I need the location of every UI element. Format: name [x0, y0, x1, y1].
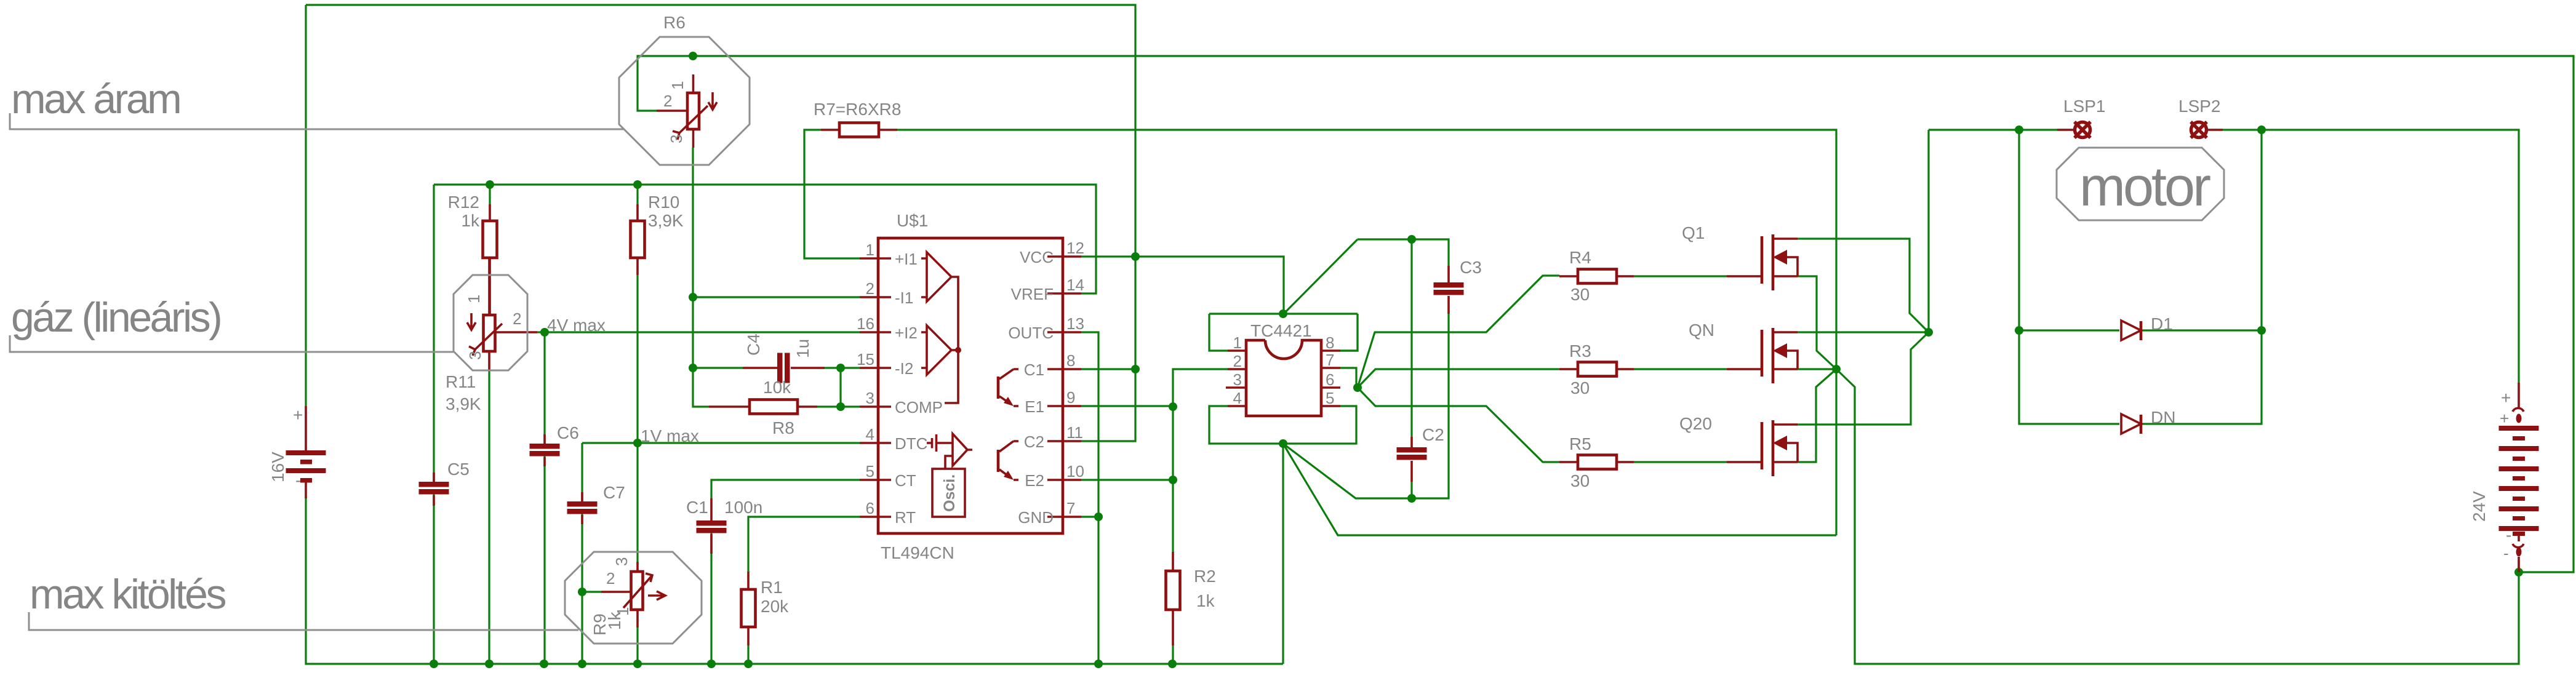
svg-text:10k: 10k [763, 378, 791, 397]
wire C3 rail [1358, 239, 1449, 498]
diode DN [2121, 414, 2141, 434]
wire row91 to right border [693, 56, 2574, 572]
wire R8 C4 right node to COMP [817, 368, 860, 407]
U1 oscillator box [945, 456, 953, 469]
node junction at 885,540 [540, 328, 549, 337]
svg-text:6: 6 [1326, 370, 1334, 389]
node junction at 3675,537 [2257, 326, 2266, 335]
svg-text:Q20: Q20 [1679, 414, 1712, 433]
node junction at 946,1079 [578, 660, 586, 668]
svg-text:30: 30 [1570, 378, 1590, 397]
svg-text:2: 2 [866, 279, 874, 298]
wire star to battery minus return [1836, 369, 2519, 664]
node junction at 1126,483 [689, 293, 697, 301]
wire R7 to TL494 pin1 [804, 130, 860, 258]
svg-text:R5: R5 [1569, 434, 1591, 453]
node junction at 1906,661 [1169, 402, 1177, 411]
wire pin6 node fan to R5 [1358, 388, 1559, 462]
wire D1 DN loop right [2142, 130, 2262, 424]
svg-text:GND: GND [1018, 508, 1054, 527]
capacitor C6 [543, 434, 546, 466]
svg-text:+: + [2501, 388, 2511, 407]
wire 1V max rail to DTC [582, 442, 860, 444]
wire top border net [306, 5, 1135, 257]
svg-text:D1: D1 [2151, 314, 2173, 333]
svg-text:LSP2: LSP2 [2178, 97, 2221, 116]
svg-text:4: 4 [866, 425, 874, 444]
svg-text:3: 3 [1233, 370, 1242, 389]
svg-text:C1: C1 [1024, 361, 1044, 379]
svg-text:C1: C1 [686, 498, 708, 517]
wire TC4421 top rail [1209, 239, 1358, 351]
node junction at 1036,1079 [633, 660, 642, 668]
svg-text:C6: C6 [557, 423, 579, 442]
svg-text:8: 8 [1326, 333, 1334, 352]
capacitor C7 [581, 492, 583, 524]
node junction at 2294,810 [1407, 494, 1416, 503]
node junction at 3281,211 [2015, 126, 2023, 134]
node junction at 1216,1079 [744, 660, 753, 668]
battery 24V [2499, 383, 2539, 572]
svg-text:3: 3 [466, 351, 484, 360]
wire VREF rail [434, 185, 1096, 293]
node junction at 1785,840 [1094, 512, 1103, 521]
svg-text:2: 2 [606, 569, 615, 588]
U1 amplifier triangle 2 [921, 325, 951, 375]
wire R11 pin3 to ground bus [488, 369, 490, 664]
svg-text:1: 1 [614, 607, 632, 616]
svg-text:3: 3 [612, 557, 631, 566]
svg-text:-I2: -I2 [895, 359, 913, 378]
svg-text:+I2: +I2 [895, 324, 918, 342]
wire R5 to Q20 gate [1634, 461, 1727, 463]
svg-text:10: 10 [1066, 462, 1084, 481]
svg-text:R12: R12 [448, 193, 479, 212]
pad LSP2 [2191, 122, 2223, 138]
node junction at 4093,930 [2514, 568, 2523, 576]
svg-text:4: 4 [1233, 389, 1242, 407]
svg-text:C2: C2 [1024, 433, 1044, 451]
resistor R10 [636, 204, 639, 275]
svg-text:3,9K: 3,9K [648, 211, 684, 230]
pad LSP1 [2057, 122, 2090, 138]
svg-text:VREF: VREF [1011, 285, 1054, 303]
wire R12 top [489, 185, 490, 204]
svg-text:RT: RT [895, 508, 916, 527]
diode D1 [2121, 321, 2141, 340]
svg-text:100n: 100n [724, 498, 762, 517]
node junction at 1906,780 [1169, 476, 1177, 484]
TC4421 right pin stubs [1321, 351, 1340, 406]
U1 comp internal wire [945, 277, 958, 403]
svg-text:12: 12 [1066, 239, 1084, 257]
node junction at 946,962 [578, 588, 586, 596]
wire divider chain -I1 -I2 [693, 148, 860, 407]
svg-text:1V max: 1V max [641, 426, 699, 445]
node junction at 3134,540 [1924, 328, 1933, 337]
U1 transistor 1 [1014, 369, 1018, 406]
node junction at 2085,510 [1279, 309, 1287, 318]
node junction at 3675,211 [2257, 126, 2266, 134]
svg-text:VCC: VCC [1020, 248, 1054, 266]
svg-text:LSP1: LSP1 [2063, 97, 2106, 116]
svg-text:C5: C5 [447, 460, 470, 479]
node junction at 1905,1079 [1168, 660, 1177, 668]
wire E2 row [1081, 479, 1173, 481]
svg-text:8: 8 [1066, 351, 1075, 370]
svg-text:3,9K: 3,9K [446, 394, 481, 413]
svg-text:11: 11 [1066, 423, 1083, 442]
transistor Q1 [1727, 234, 1798, 290]
capacitor C1 [710, 498, 713, 520]
R11 octagon outline [454, 275, 527, 370]
R9 octagon outline [565, 552, 702, 644]
wire C5 column [433, 185, 434, 664]
svg-text:30: 30 [1570, 471, 1590, 490]
svg-text:1: 1 [465, 295, 483, 303]
wire OUTC to GND column [1081, 332, 1098, 664]
resistor R12 [489, 204, 491, 315]
wire TC4421 bottom rail [1209, 406, 1356, 444]
node junction at 795,1079 [485, 660, 494, 668]
svg-text:R2: R2 [1194, 567, 1216, 586]
wire 4V max rail to +I2 [537, 331, 860, 333]
resistor R3 [1559, 368, 1634, 370]
node junction at 1126,91 [689, 52, 697, 60]
svg-text:-I1: -I1 [895, 289, 913, 307]
capacitor C3 [1447, 266, 1450, 282]
svg-text:9: 9 [1066, 388, 1075, 407]
capacitor C5 [433, 473, 435, 506]
svg-text:3: 3 [866, 389, 874, 407]
resistor R7 [821, 129, 897, 131]
wire LSP row [1929, 130, 2519, 383]
svg-text:2: 2 [513, 309, 521, 328]
wire R4 to Q1 gate [1634, 275, 1727, 277]
wire QN source net [1797, 368, 1836, 370]
resistor R4 [1559, 275, 1634, 277]
transistor Q20 [1727, 420, 1798, 476]
svg-text:7: 7 [1326, 351, 1334, 369]
svg-text:R6: R6 [663, 13, 686, 32]
svg-text:15: 15 [857, 350, 874, 369]
svg-text:motor: motor [2079, 156, 2210, 218]
svg-text:Osci.: Osci. [941, 474, 958, 512]
svg-text:3: 3 [667, 135, 686, 143]
svg-text:E2: E2 [1025, 471, 1044, 490]
wire D1 DN loop left [2019, 130, 2119, 424]
svg-text:OUTC: OUTC [1008, 324, 1054, 342]
wire R6 pin2 jog [638, 56, 693, 111]
svg-text:QN: QN [1689, 321, 1714, 340]
wire pin6 node fan to R3 [1358, 369, 1559, 388]
U1 right pin stubs [1047, 257, 1081, 517]
wire R3 to QN gate [1634, 368, 1727, 370]
wire C2 column [1410, 239, 1412, 498]
svg-text:R8: R8 [772, 418, 794, 437]
wire C7 column [581, 443, 583, 664]
R6 octagon outline [619, 37, 750, 165]
TC4421 left pin stubs [1226, 351, 1246, 406]
svg-text:C4: C4 [744, 333, 763, 356]
svg-text:1k: 1k [461, 211, 480, 230]
svg-text:CT: CT [895, 471, 916, 490]
node junction at 1785,1079 [1094, 660, 1103, 668]
svg-text:-: - [2506, 525, 2511, 544]
svg-text:2: 2 [663, 92, 672, 110]
potentiometer R6 [657, 74, 717, 148]
svg-text:-: - [295, 471, 301, 490]
resistor R1 [747, 572, 750, 645]
svg-text:C7: C7 [603, 483, 625, 502]
wire left border / 16V battery column [306, 5, 1283, 664]
wire R10 column to 1V rail and R9 pin3 [636, 185, 638, 664]
capacitor C2 [1410, 437, 1413, 447]
svg-text:-: - [2503, 544, 2509, 562]
svg-text:+I1: +I1 [895, 250, 918, 268]
svg-text:R1: R1 [761, 578, 783, 597]
battery 16V [286, 406, 326, 498]
svg-text:max kitöltés: max kitöltés [30, 571, 225, 618]
svg-text:DTC: DTC [895, 434, 927, 453]
wire TC4421 pin7 pin8 [1340, 314, 1358, 388]
motor symbol outline [2057, 148, 2224, 220]
svg-text:1u: 1u [793, 339, 812, 358]
node junction at 1156,1079 [707, 660, 716, 668]
resistor R8 [709, 405, 817, 408]
op-amp TC4421 body [1246, 340, 1321, 416]
svg-text:2: 2 [1233, 352, 1242, 370]
potentiometer R9 [601, 562, 665, 628]
svg-text:+: + [293, 405, 303, 425]
svg-text:R10: R10 [648, 193, 679, 212]
U1 DTC cap and triangle [927, 434, 953, 452]
svg-text:COMP: COMP [895, 398, 943, 417]
svg-text:1: 1 [668, 81, 687, 90]
svg-text:20k: 20k [761, 597, 789, 616]
svg-text:TL494CN: TL494CN [881, 543, 954, 562]
U1 transistor 2 [1014, 441, 1018, 480]
node junction at 796,300 [486, 180, 494, 189]
wire Q20 drain net [1797, 332, 1929, 425]
capacitor C4 rotated [743, 367, 825, 369]
node junction at 2206,630 [1353, 383, 1362, 392]
svg-text:C3: C3 [1460, 258, 1482, 277]
wire CT to C1 [711, 480, 860, 664]
svg-text:16: 16 [857, 314, 874, 333]
node junction at 2984,600 [1832, 365, 1841, 373]
svg-text:1: 1 [866, 241, 874, 259]
svg-text:DN: DN [2151, 408, 2175, 427]
wire E1 row [1081, 405, 1173, 407]
svg-text:E1: E1 [1025, 397, 1044, 416]
node junction at 2294,389 [1407, 235, 1416, 244]
svg-text:max áram: max áram [11, 76, 180, 122]
wire R9 wiper tap [582, 591, 601, 592]
wire TC4421 gnd column [1282, 444, 1284, 664]
svg-text:Q1: Q1 [1682, 223, 1705, 242]
wire gnd diag to C2 rail [1283, 444, 1412, 498]
svg-text:1: 1 [1233, 333, 1242, 352]
svg-text:1k: 1k [1196, 591, 1215, 610]
wire gnd diag to 870 row to star column [1283, 369, 1836, 535]
svg-text:R11: R11 [446, 372, 476, 391]
svg-text:C2: C2 [1422, 425, 1444, 444]
wire C6 column [543, 332, 545, 664]
wire Q20 source net [1797, 369, 1836, 462]
node junction at 884,1079 [540, 660, 548, 668]
node junction at 705,1079 [430, 660, 438, 668]
svg-text:+: + [2500, 409, 2509, 428]
node junction at 1845,600 [1131, 365, 1140, 373]
potentiometer R11 [467, 258, 537, 370]
wire VCC net TL494 to TC4421 [1081, 257, 1284, 441]
node junction at 2085,721 [1279, 439, 1287, 448]
node junction at 3281,537 [2015, 326, 2023, 335]
wire pin6 node fan to R4 [1358, 276, 1559, 388]
svg-text:U$1: U$1 [897, 211, 928, 230]
U1 amplifier triangle 1 [921, 252, 951, 301]
op-amp U1 TL494CN body [878, 238, 1063, 533]
wire Q1 drain net [1797, 239, 1929, 332]
resistor R5 [1559, 461, 1634, 463]
node junction at 1845,417 [1131, 252, 1140, 261]
svg-text:5: 5 [866, 462, 874, 481]
node junction at 1036,300 [633, 180, 642, 189]
svg-text:16V: 16V [268, 452, 287, 482]
U1 left pin stubs [860, 258, 891, 517]
svg-text:gáz (lineáris): gáz (lineáris) [11, 294, 220, 341]
svg-text:13: 13 [1066, 314, 1084, 333]
wire QN drain net [1797, 331, 1929, 333]
svg-text:7: 7 [1066, 499, 1075, 517]
svg-text:24V: 24V [2470, 491, 2489, 522]
svg-text:R4: R4 [1569, 248, 1591, 267]
svg-text:14: 14 [1066, 276, 1084, 294]
wire TC4421 pin2 column / R2 [1173, 369, 1228, 664]
resistor R2 [1172, 552, 1174, 645]
wire R7 right to star node [897, 130, 1836, 369]
wire motor terminal column left [1927, 130, 1929, 332]
svg-text:4V max: 4V max [547, 316, 606, 335]
svg-text:R7=R6XR8: R7=R6XR8 [814, 100, 901, 119]
node junction at 1036,720 [633, 439, 642, 447]
svg-text:5: 5 [1326, 389, 1334, 407]
node junction at 1366,598 [836, 364, 845, 372]
svg-text:R3: R3 [1569, 341, 1591, 361]
node junction at 1126,598 [689, 364, 697, 372]
node junction at 1366,661 [836, 402, 845, 411]
wire 24V battery bottom [2518, 561, 2519, 572]
transistor QN [1727, 328, 1798, 383]
svg-text:6: 6 [866, 499, 874, 517]
svg-text:TC4421: TC4421 [1250, 321, 1312, 340]
svg-text:30: 30 [1570, 285, 1590, 304]
wire RT to R1 [748, 517, 860, 664]
wire Q1 source net [1797, 276, 1836, 369]
